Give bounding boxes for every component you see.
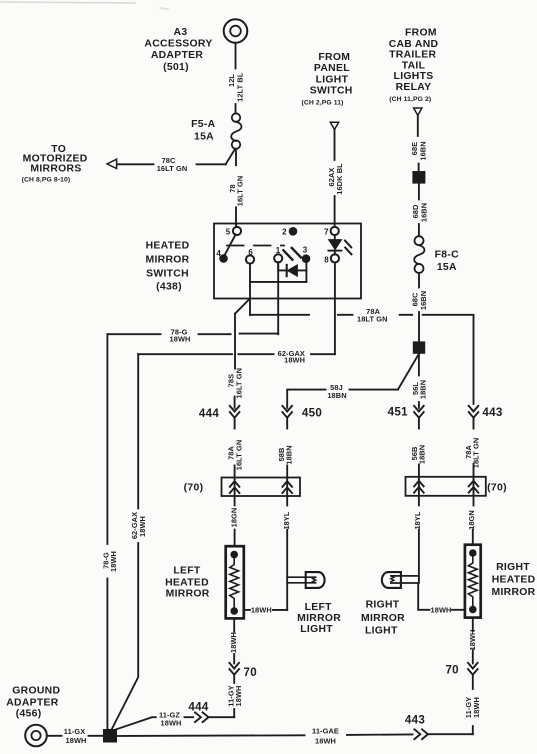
svg-text:(CH 11,PG 2): (CH 11,PG 2) [389,96,431,103]
svg-text:70: 70 [445,663,459,676]
svg-text:(456): (456) [16,709,42,720]
svg-text:1: 1 [276,246,281,255]
svg-text:450: 450 [302,407,322,420]
svg-text:A3: A3 [174,27,188,38]
svg-text:2: 2 [282,228,287,237]
wire label 78A 18LT GN [464,438,481,469]
svg-text:FROM: FROM [318,52,350,63]
svg-text:TRAILER: TRAILER [389,50,436,61]
svg-text:7: 7 [324,227,329,236]
wire pin1 down to 78-G [277,262,279,334]
svg-text:6: 6 [248,248,253,257]
wire 18WH below right mirror [472,618,474,664]
wire 78A from pin6 to right mirror column [250,315,474,404]
svg-text:MIRROR: MIRROR [492,587,536,598]
svg-text:LEFT: LEFT [173,565,201,576]
svg-text:(CH 8,PG 8-10): (CH 8,PG 8-10) [22,176,71,183]
svg-text:ACCESSORY: ACCESSORY [144,39,212,50]
wire label 11-GY 18WH right [464,697,481,718]
wire 56L from splice to 451 [418,354,420,408]
wire label 68C 16BN [411,291,428,310]
text to motorized mirrors [22,144,88,183]
pin 5 [233,227,241,235]
connector (70) right pin arrows [414,477,478,496]
svg-text:18WH: 18WH [284,356,305,365]
wire label 11-GX 18WH [64,727,87,745]
right heated mirror [465,545,481,618]
connector arrow 444 [230,406,240,429]
svg-text:18WH: 18WH [315,736,336,745]
svg-text:11-GX: 11-GX [64,727,85,736]
svg-text:SWITCH: SWITCH [146,269,189,280]
wire label 56B 18BN [410,445,426,464]
wire label 78C 16LT GN [157,156,188,173]
svg-text:18YL: 18YL [413,511,422,529]
LED indicator between pin 7 and pin 8 [328,235,341,255]
pin 7 [331,227,339,235]
wire 68E [417,115,420,171]
wire label 78A 18LT GN [357,307,388,324]
wire pin6 below box to split [249,282,251,315]
connector arrow 443 [469,406,479,429]
wire pin3 internal [305,263,307,282]
wire 58B into left 70 connector [286,466,288,478]
wire 18WH left mirror light to mirror [244,609,287,611]
wire 18WH right mirror light to mirror [418,583,465,610]
svg-text:18WH: 18WH [251,605,272,614]
svg-text:RIGHT: RIGHT [496,562,530,573]
wire label 68D 16BN [411,203,428,222]
wire label 58B 18BN [277,445,293,464]
wire label 58J 18BN [327,383,346,400]
wire 18YL to left mirror light [286,496,288,610]
pin 1 [274,254,282,262]
ground adapter connector [25,725,47,747]
svg-text:MIRROR: MIRROR [297,613,341,624]
svg-text:(501): (501) [163,62,189,73]
svg-text:3: 3 [303,246,308,255]
svg-text:443: 443 [482,406,502,419]
pin 6 [246,255,254,263]
switch lever pin5-pin4 [225,234,236,255]
svg-text:MIRROR: MIRROR [361,613,405,624]
wire 11-GZ with connector 444 to ground splice [115,717,234,730]
wire 56B into right 70 connector [418,465,420,477]
diode between pin 1 and pin 3 [278,262,306,276]
connector arrow 451 [414,406,424,429]
svg-text:18WH: 18WH [170,334,191,343]
svg-text:MIRROR: MIRROR [146,255,190,266]
svg-text:16LT GN: 16LT GN [234,440,243,471]
svg-text:ADAPTER: ADAPTER [6,697,59,708]
svg-text:GROUND: GROUND [12,685,60,696]
arrow to motorized mirrors [107,159,117,168]
wire 78S diagonal and down to 444 [235,299,250,409]
wire pin8 down to 62-GAX [334,262,336,354]
svg-text:HEATED: HEATED [492,575,536,586]
svg-text:18BN: 18BN [418,380,427,399]
wire label 68E 16BN [410,141,428,160]
mechanical linkage dashed line [227,245,284,247]
wire label 78S 16LT GN [226,368,243,399]
svg-text:18YL: 18YL [282,511,291,529]
wire label 11-GY 18WH left [226,685,243,706]
pin 4 [219,254,228,263]
svg-text:16LT GN: 16LT GN [157,164,188,173]
svg-text:16BN: 16BN [419,291,428,310]
svg-text:RIGHT: RIGHT [366,600,400,611]
svg-text:4: 4 [216,249,221,258]
wire 11-GY left [233,675,235,718]
wire 62-GAX vertical to ground splice [112,354,139,729]
svg-text:18WH: 18WH [161,718,182,727]
svg-text:16BN: 16BN [418,141,427,160]
connector arrow 70 left [229,663,239,675]
wire label 78-G 18WH vertical [102,551,119,572]
connector arrow 444 bottom [195,712,209,722]
svg-text:444: 444 [188,700,208,713]
svg-text:18BN: 18BN [284,445,293,464]
connector arrow 443 bottom [414,729,428,739]
wire 11-GY right [472,675,474,735]
svg-text:HEATED: HEATED [165,578,209,589]
svg-text:18WH: 18WH [234,686,243,707]
wire label 78A 16LT GN [226,440,243,471]
svg-text:12LT BL: 12LT BL [235,72,244,102]
wire label 62-GAX 18WH vertical [130,512,147,539]
svg-text:15A: 15A [194,132,214,143]
wire 68C [418,273,420,342]
heated mirror switch (438) box [214,224,361,299]
svg-text:15A: 15A [437,262,457,273]
svg-text:(438): (438) [156,281,182,292]
wire 18WH below left mirror [233,618,235,663]
right mirror light bulb [382,572,419,588]
wire 11-GX [47,735,103,737]
connector (70) left pin arrows [230,478,292,497]
wire 78-G vertical to ground splice [106,334,108,729]
svg-text:18LT GN: 18LT GN [472,438,481,469]
svg-text:MIRROR: MIRROR [166,588,210,599]
wire 18GN to left heated mirror [234,496,236,546]
ground splice [103,729,117,743]
svg-text:TAIL: TAIL [402,60,426,71]
text right mirror light [361,600,405,637]
svg-text:18GN: 18GN [467,510,476,530]
wire 11-GAE ground bus [117,734,413,736]
svg-text:PANEL: PANEL [314,63,350,74]
pin 2 [289,227,298,236]
svg-text:451: 451 [388,405,408,418]
splice 68E/68D [412,171,425,184]
svg-text:16DK BL: 16DK BL [335,163,344,195]
LED light rays [345,241,351,255]
connector (70) left [222,478,301,497]
wire 78 16LT GN from fuse to switch pin 5 [235,149,237,227]
svg-text:443: 443 [405,713,425,726]
left heated mirror [226,546,244,618]
wire label 78-G 18WH [170,327,191,343]
wire label 12L 12LT BL [227,72,245,102]
text heated mirror switch (438) [146,241,190,293]
svg-text:8: 8 [324,256,329,265]
svg-text:18BN: 18BN [327,391,346,400]
wire 78C to motorized mirrors [117,149,235,164]
source arrow tail lights relay [414,108,422,115]
svg-text:HEATED: HEATED [146,241,190,252]
text from panel light switch [302,52,353,106]
splice 68C/56L/58J [413,341,425,353]
switch indicator slashes [283,248,300,260]
fuse F8-C 15A [414,236,424,273]
svg-text:5: 5 [226,227,231,236]
svg-text:11-GAE: 11-GAE [312,726,339,735]
wire 68D [418,184,420,236]
wire label 11-GZ 18WH [159,710,181,727]
wire label 56L 18BN [411,380,427,399]
wire bus to right mirror column [428,733,473,735]
svg-text:16BN: 16BN [420,203,429,222]
connector arrow 450 [282,406,292,429]
wire label 11-GAE 18WH [312,726,339,745]
svg-text:F5-A: F5-A [191,119,215,130]
svg-text:444: 444 [199,407,219,420]
svg-text:RELAY: RELAY [396,82,432,93]
svg-text:F8-C: F8-C [435,249,459,260]
text from cab and trailer tail lights relay [389,27,439,103]
wire 18YL to right mirror light [418,496,420,583]
svg-text:16LT GN: 16LT GN [236,176,245,207]
svg-text:70: 70 [244,666,258,679]
svg-text:LIGHT: LIGHT [300,624,333,635]
svg-text:18BN: 18BN [417,445,426,464]
svg-text:18WH: 18WH [472,697,481,718]
svg-text:18WH: 18WH [468,630,477,651]
svg-text:SWITCH: SWITCH [310,85,353,96]
wire 78A into right 70 connector [473,464,475,477]
text ground adapter (456) [6,685,60,719]
svg-text:LIGHT: LIGHT [365,625,398,636]
pin 8 [331,254,339,262]
svg-text:18WH: 18WH [229,632,238,653]
connector arrow 70 right [468,663,478,675]
wire 12L from A3 adapter to fuse F5-A [235,43,237,113]
fuse F5-A 15A [231,113,241,148]
connector A3 accessory adapter (501) [224,19,248,43]
wire label 62-GAX 18WH [278,349,305,365]
wire pin6 to pin3 internal [250,264,306,282]
wire label 78 16LT GN [228,176,245,207]
connector (70) right [406,477,486,496]
svg-text:18WH: 18WH [109,551,118,572]
svg-text:18WH: 18WH [431,606,452,615]
svg-text:18GN: 18GN [229,508,238,528]
svg-text:CAB AND: CAB AND [389,39,439,50]
svg-text:18WH: 18WH [66,736,87,745]
wire pin5 stub into box [235,224,237,228]
svg-text:18LT GN: 18LT GN [357,315,388,324]
pin 3 [302,254,311,263]
svg-text:LIGHT: LIGHT [316,74,349,85]
wire 18GN to right heated mirror [472,496,475,545]
wire label 62AX 16DK BL [327,163,344,195]
wire 62AX from panel light switch to pin 7 [334,130,336,227]
svg-text:18WH: 18WH [138,516,147,537]
scan artifact top edge [0,2,168,9]
svg-text:(70): (70) [487,483,507,494]
svg-text:MIRRORS: MIRRORS [30,164,81,175]
svg-text:LIGHTS: LIGHTS [394,71,434,82]
wire 78A into left 70 connector [234,466,236,478]
left mirror light bulb [287,572,324,588]
svg-text:(70): (70) [184,483,204,494]
svg-text:16LT GN: 16LT GN [234,368,243,399]
svg-text:(CH 2,PG 11): (CH 2,PG 11) [302,99,344,106]
svg-text:FROM: FROM [405,27,437,38]
svg-text:LEFT: LEFT [305,602,333,613]
wire 58J from splice to 450 [287,354,419,408]
text left mirror light [297,602,341,635]
source arrow panel light switch [330,122,338,129]
wire 78-G horizontal [107,333,278,336]
wire 62-GAX horizontal [138,353,335,355]
svg-text:ADAPTER: ADAPTER [151,50,204,61]
